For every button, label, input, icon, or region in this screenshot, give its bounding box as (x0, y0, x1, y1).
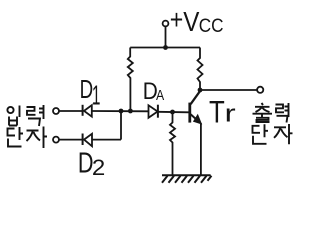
label 입력 단자 (input terminal, Korean, drawn) (7, 105, 47, 148)
junction collector node (198, 88, 203, 93)
transistor Tr base bar (188, 103, 191, 123)
wire input2 to D2 (59, 139, 82, 141)
svg-text:V: V (183, 8, 200, 38)
label Tr (209, 95, 236, 130)
output terminal (257, 87, 263, 93)
input terminal 2 (53, 137, 59, 143)
diode DA (149, 105, 158, 118)
wire emitter to ground (200, 123, 202, 175)
label D2 (78, 148, 105, 180)
diode D2 (82, 134, 84, 146)
glyph 출 (253, 103, 273, 122)
resistor R2 (198, 48, 203, 91)
glyph 력 (right) (276, 103, 289, 123)
label DA (143, 76, 165, 104)
junction base node (170, 110, 175, 115)
svg-text:T: T (209, 95, 225, 130)
svg-text:2: 2 (92, 155, 105, 180)
wire D1 to node A (92, 110, 149, 112)
junction D2 branch (119, 109, 124, 114)
glyph 력 (left) (27, 105, 44, 126)
wire D2 to branch (92, 139, 121, 141)
svg-text:CC: CC (199, 14, 224, 36)
transistor Tr emitter arrow (193, 114, 202, 125)
glyph 입 (7, 107, 13, 113)
glyph 자 (left) (27, 127, 48, 149)
svg-text:1: 1 (92, 80, 101, 111)
wire VCC stem (165, 26, 167, 47)
VCC terminal (163, 21, 169, 27)
svg-text:+: + (170, 5, 183, 35)
ground (162, 174, 211, 176)
glyph 자 (right) (274, 124, 293, 144)
label D1 (80, 74, 101, 111)
svg-text:r: r (225, 100, 236, 128)
svg-text:A: A (156, 87, 165, 103)
wire collector to output (200, 89, 257, 91)
diode D1 (82, 105, 84, 116)
wire D2 branch vertical (120, 111, 122, 140)
resistor R1 (128, 48, 133, 112)
junction node A (128, 109, 133, 114)
transistor Tr collector stroke (191, 91, 201, 104)
glyph 단 (right) (253, 124, 269, 144)
junction VCC rail (163, 45, 168, 50)
label +VCC (170, 5, 224, 37)
resistor R3 (170, 112, 175, 175)
transistor Tr emitter stroke (191, 114, 200, 122)
glyph 단 (left) (8, 127, 24, 147)
wire input1 to D1 (59, 110, 82, 112)
input terminal 1 (53, 108, 59, 114)
svg-text:D: D (80, 74, 94, 104)
wire DA to base (158, 111, 189, 114)
label 출력 단자 (output terminal, Korean, drawn) (253, 103, 293, 144)
wire top rail (130, 47, 200, 49)
